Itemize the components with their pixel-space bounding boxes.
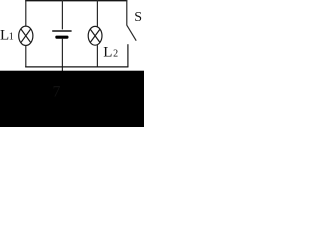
censored black region (0, 71, 144, 127)
svg-text:1: 1 (9, 32, 14, 43)
wire L2 branch lower (96, 45, 98, 67)
wire L1 branch upper (25, 0, 27, 27)
svg-text:S: S (134, 10, 142, 25)
svg-text:2: 2 (113, 49, 118, 60)
svg-text:7: 7 (53, 84, 61, 101)
wire bottom horizontal (25, 66, 128, 68)
wire top horizontal (25, 0, 127, 2)
wire battery branch upper (61, 0, 63, 29)
svg-text:L: L (103, 45, 112, 61)
wire switch branch upper (126, 0, 128, 25)
wire L2 branch upper (96, 0, 98, 27)
lamp L2 (88, 26, 102, 45)
battery cell (52, 31, 71, 39)
wire L1 branch lower (25, 45, 27, 67)
switch S blade (open) (127, 25, 136, 41)
lamp L1 (19, 26, 33, 45)
wire switch lower lead (127, 44, 129, 67)
wire battery branch lower (runs through bottom wire into dark region) (61, 39, 63, 72)
